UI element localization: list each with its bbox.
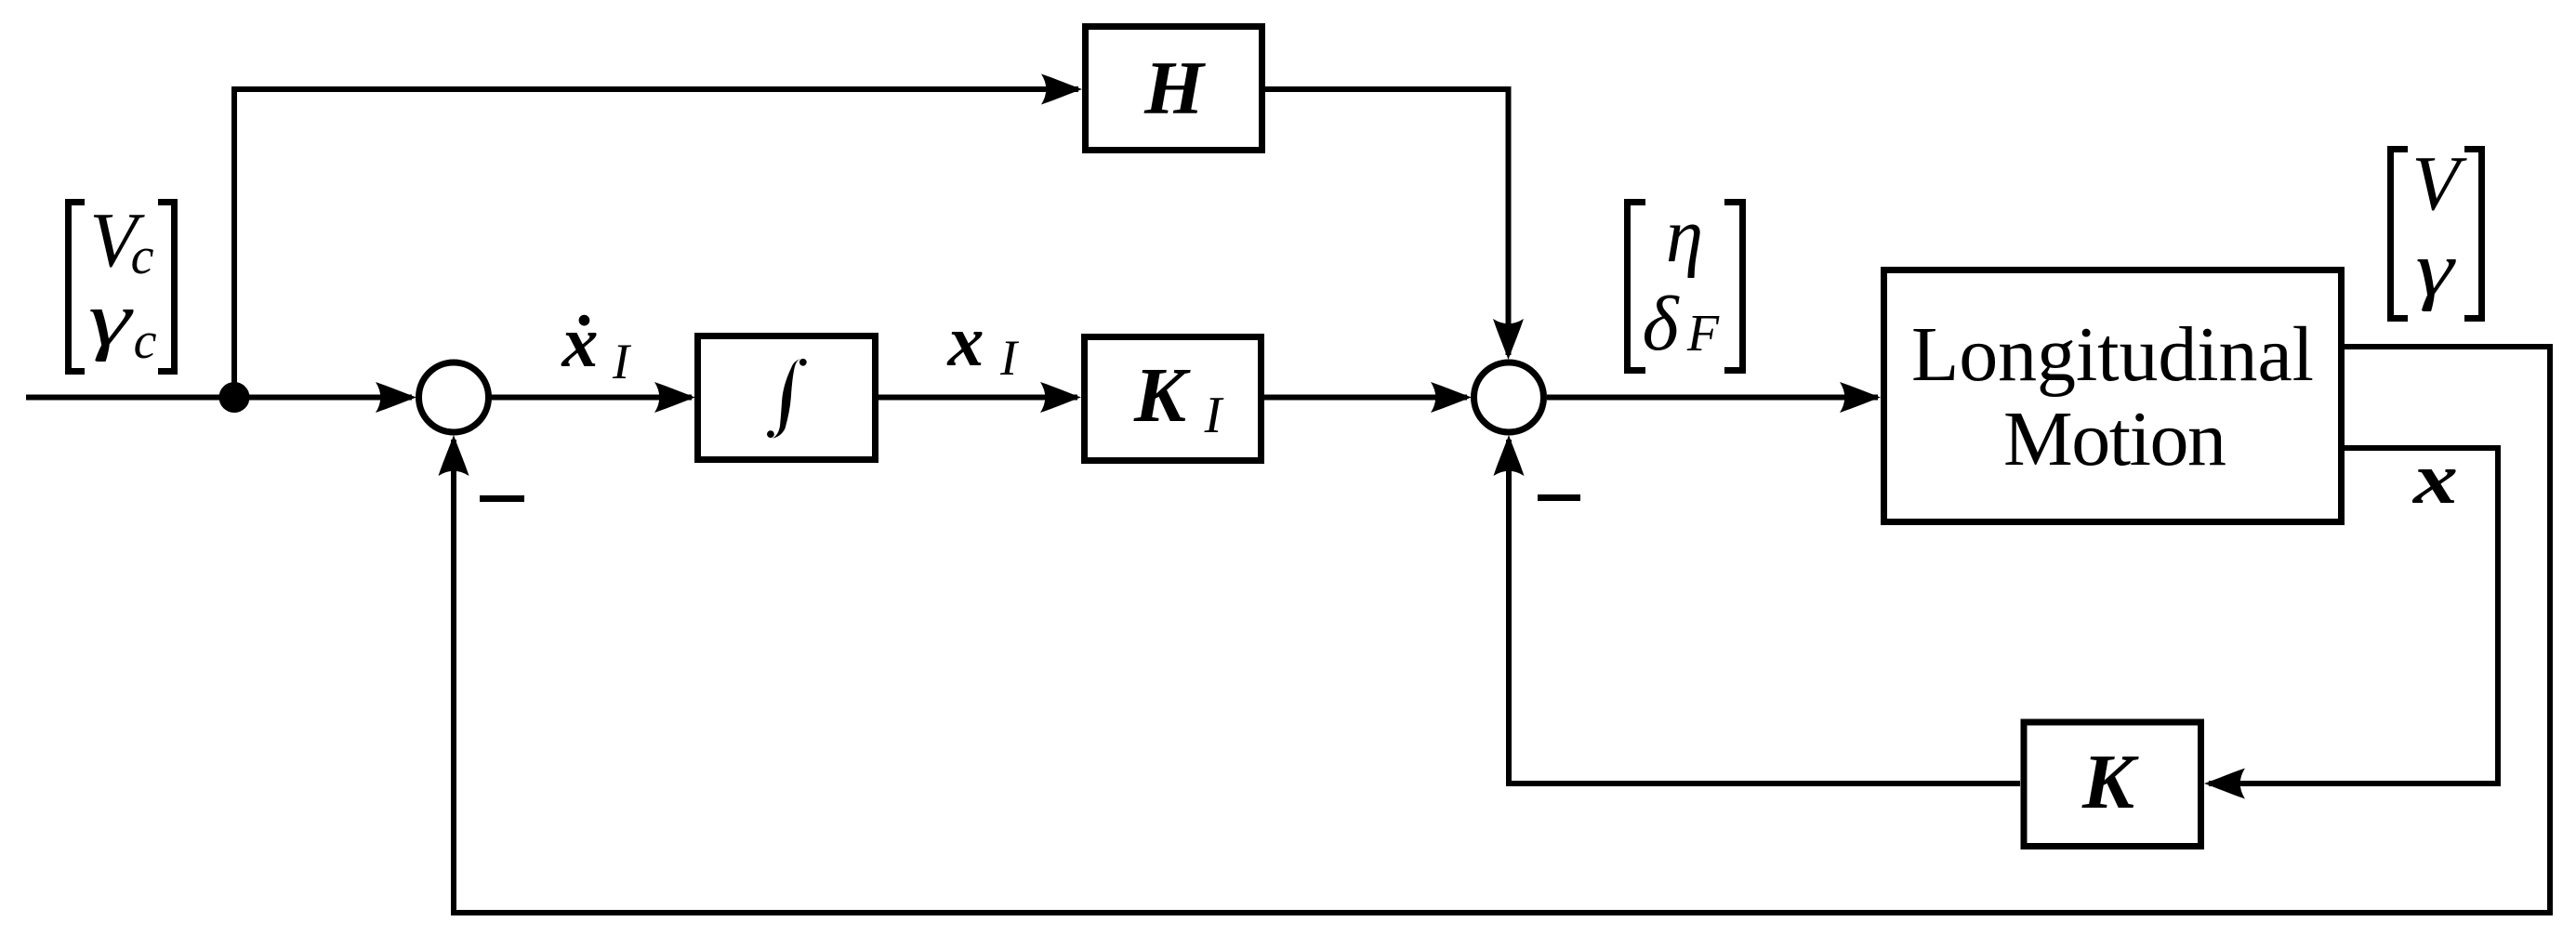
arrow into integrator [654,382,695,413]
block H [1086,27,1262,151]
svg-text:c: c [134,312,157,370]
svg-text:I: I [999,330,1020,386]
svg-text:x: x [2412,438,2458,519]
block K [2024,722,2201,847]
wire integrator to KI [878,395,1077,401]
block KI [1085,337,1262,461]
arrow into sum2 bottom [1494,435,1525,476]
matrix eta deltaF right bracket [1724,199,1746,374]
svg-text:c: c [131,228,154,285]
svg-text:Motion: Motion [2003,396,2226,482]
arrow into H [1041,74,1082,105]
minus sign at sum2 [1538,494,1580,501]
wire KI to sum2 [1264,395,1467,401]
arrow into sum2 left [1431,382,1472,413]
matrix Vc gammac right bracket [158,199,178,375]
svg-text:K: K [1133,352,1191,439]
arrow into sum1 bottom [439,435,469,476]
wire sum2 to plant [1547,395,1878,401]
svg-text:δ: δ [1642,281,1680,367]
wire outer feedback loop V-gamma [454,347,2550,913]
block integrator [698,336,876,460]
wire H output down to sum2 [1265,89,1509,355]
wire K output to sum2 [1509,440,2020,784]
summing junction S1 [419,362,489,432]
svg-text:I: I [1204,387,1224,444]
svg-text:x: x [947,300,984,381]
svg-text:K: K [2081,739,2139,825]
arrow into KI [1040,382,1081,413]
wire input main [26,395,412,401]
wire x output to K [2209,448,2498,784]
arrow into sum1 [376,382,416,413]
arrow into plant [1840,382,1881,413]
node branch dot [219,382,250,413]
arrow into sum2 top [1493,319,1524,360]
svg-text:γ: γ [88,276,134,362]
block Longitudinal Motion [1884,270,2342,522]
svg-text:Longitudinal: Longitudinal [1911,311,2314,398]
svg-text:V: V [2411,140,2467,227]
svg-text:γ: γ [2416,226,2456,312]
svg-text:F: F [1686,305,1720,362]
matrix Vc gammac left bracket [65,199,85,375]
label integral [767,359,807,439]
wire sum1 to integrator [489,395,692,401]
matrix V gamma left bracket [2387,146,2408,322]
minus sign at sum1 [480,495,524,502]
wire branch up to H rail [234,89,1078,398]
matrix eta deltaF left bracket [1624,199,1645,374]
svg-text:H: H [1143,46,1206,130]
svg-text:ẋ: ẋ [561,301,599,382]
arrow into K right [2204,769,2245,799]
summing junction S2 [1474,362,1544,432]
svg-text:η: η [1666,192,1703,279]
svg-text:I: I [612,334,632,389]
matrix V gamma right bracket [2464,146,2485,322]
